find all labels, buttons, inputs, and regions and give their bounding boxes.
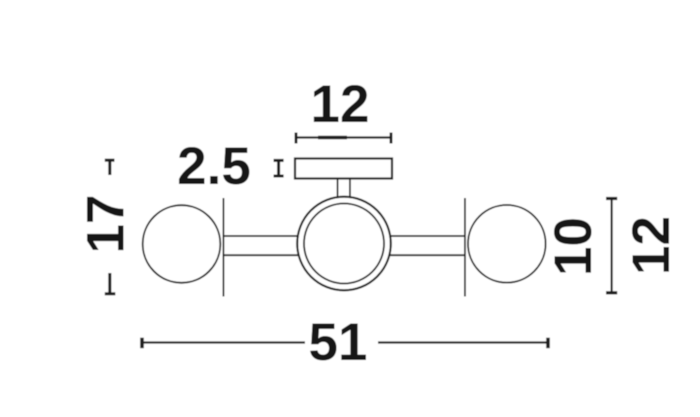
dimension marker 2.5 ticks <box>274 160 284 176</box>
svg-text:12: 12 <box>622 216 681 275</box>
right joint vertical line <box>464 198 466 297</box>
central ring inner circle <box>304 204 384 284</box>
canopy plate <box>295 159 392 179</box>
left joint vertical line <box>222 198 224 297</box>
stem (double line between canopy and ring) <box>338 179 350 199</box>
left arm (double line) <box>223 236 344 255</box>
svg-text:17: 17 <box>77 195 136 254</box>
dimension tick 17 top <box>105 160 115 175</box>
right sphere <box>468 205 546 283</box>
dimension line 12 (top) <box>296 133 391 144</box>
right arm (double line) <box>344 236 465 255</box>
svg-text:12: 12 <box>311 75 370 134</box>
svg-text:2.5: 2.5 <box>177 137 251 196</box>
svg-text:51: 51 <box>309 313 368 372</box>
left sphere <box>143 205 221 283</box>
svg-text:10: 10 <box>544 217 603 276</box>
dimension tick 17 bottom <box>105 273 116 294</box>
central ring outer circle <box>297 197 391 291</box>
dimension line 51 (bottom) <box>142 338 548 349</box>
dimension line 12 (right vertical) <box>606 199 617 293</box>
